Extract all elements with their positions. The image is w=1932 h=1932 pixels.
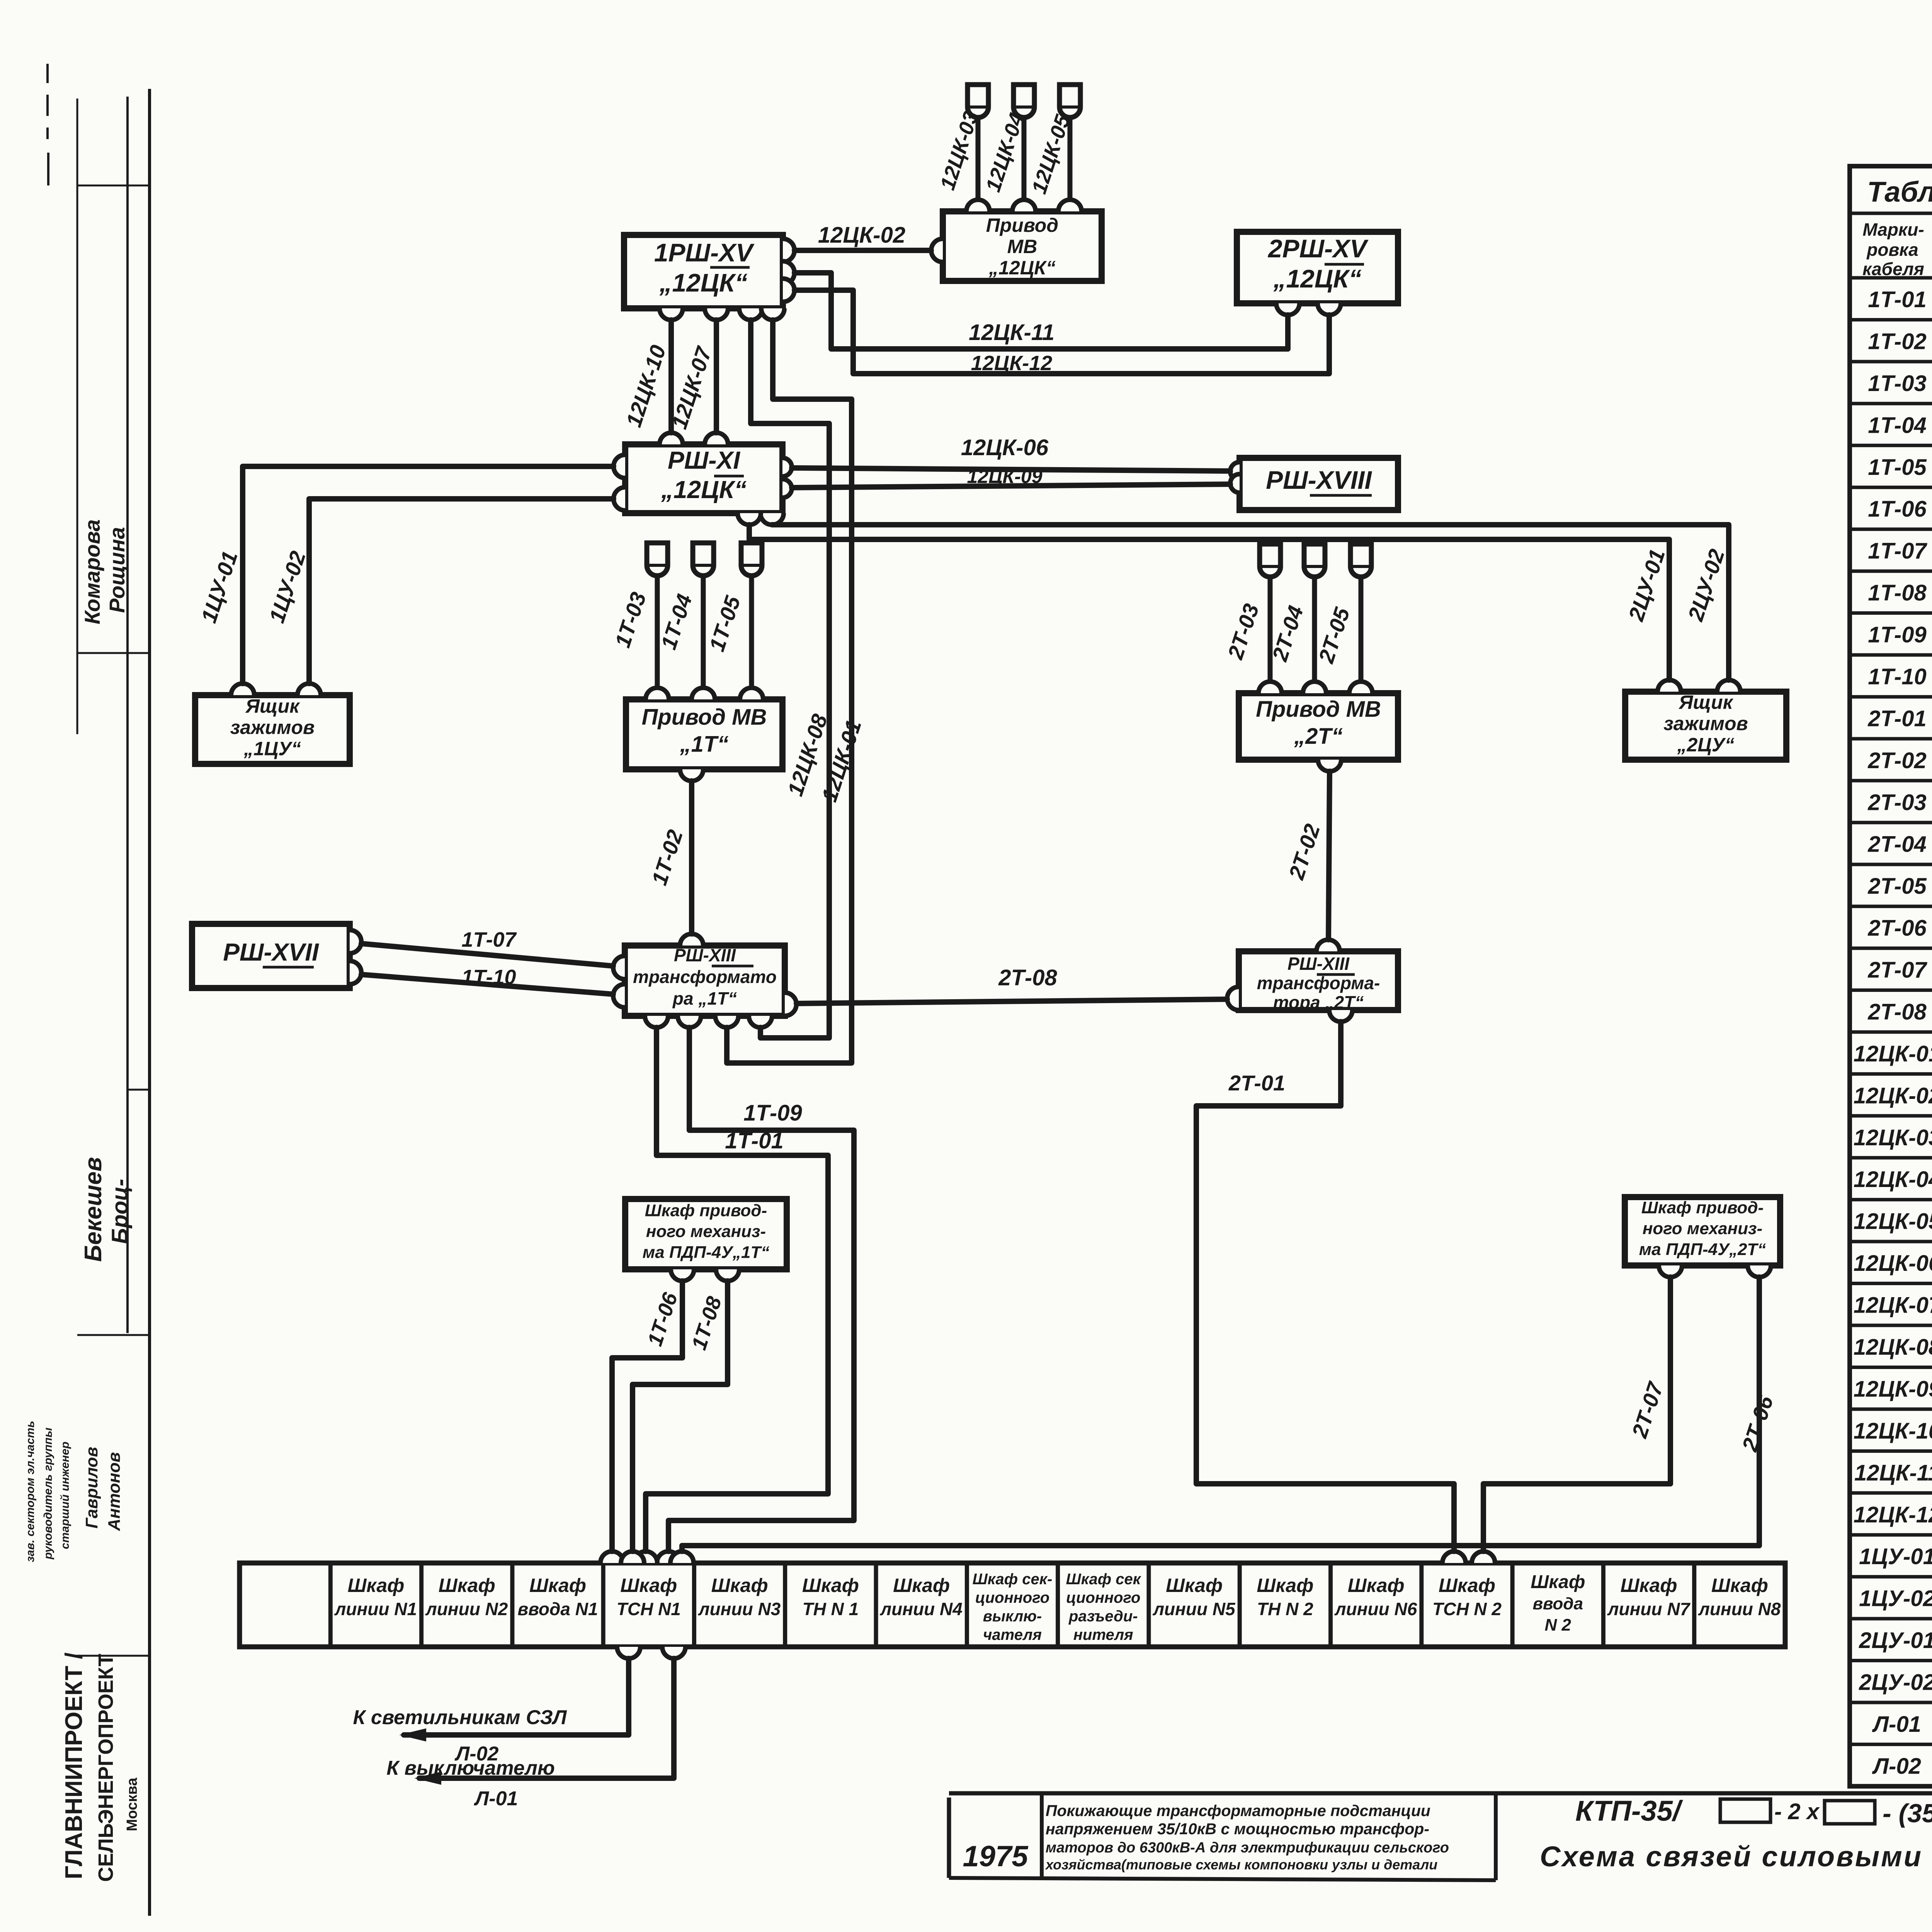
svg-text:Привод МВ: Привод МВ [1256, 697, 1381, 722]
title block type designation КТП-35 [1575, 1795, 1932, 1828]
svg-text:ТСН N1: ТСН N1 [617, 1599, 681, 1619]
terminal box Ящик зажимов „2ЦУ" [1625, 692, 1786, 760]
svg-text:линии N7: линии N7 [1607, 1599, 1691, 1619]
svg-text:хозяйства(типовые схемы компон: хозяйства(типовые схемы компоновки узлы … [1045, 1857, 1437, 1872]
cable terminations 1Т-03,04,05 [610, 543, 763, 699]
svg-text:„2ЦУ“: „2ЦУ“ [1677, 734, 1734, 756]
svg-text:старший инженер: старший инженер [59, 1442, 71, 1549]
svg-text:1Т-01: 1Т-01 [725, 1128, 784, 1153]
wire 1Т-08 [621, 1269, 739, 1563]
terminal box Ящик зажимов „1ЦУ" [195, 695, 350, 764]
cabinet РШ-XI „12ЦК" [625, 444, 782, 513]
sidebar signatures [80, 1157, 133, 1262]
wire 1Т-01 [634, 1016, 828, 1563]
svg-text:ГЛАВНИИПРОЕКТ /: ГЛАВНИИПРОЕКТ / [61, 1653, 87, 1879]
svg-text:1Т-10: 1Т-10 [461, 966, 516, 989]
svg-text:ного механиз-: ного механиз- [646, 1222, 766, 1241]
svg-text:12ЦК-12: 12ЦК-12 [1854, 1502, 1932, 1527]
svg-text:Шкаф: Шкаф [1166, 1575, 1223, 1596]
svg-text:тора „2Т“: тора „2Т“ [1273, 992, 1364, 1012]
cabinet РШ-XVII [192, 924, 350, 988]
svg-text:N 2: N 2 [1545, 1616, 1571, 1634]
svg-text:12ЦК-02: 12ЦК-02 [1854, 1083, 1932, 1108]
wire 1Т-09 [657, 1016, 854, 1563]
svg-text:„12ЦК“: „12ЦК“ [661, 476, 747, 503]
svg-text:12ЦК-09: 12ЦК-09 [1854, 1376, 1932, 1401]
svg-text:КТП-35/: КТП-35/ [1575, 1795, 1684, 1827]
svg-text:К светильникам СЗЛ: К светильникам СЗЛ [353, 1706, 567, 1729]
svg-text:2Т-04: 2Т-04 [1867, 832, 1927, 857]
svg-text:12ЦК-03: 12ЦК-03 [1854, 1125, 1932, 1150]
svg-text:ввода: ввода [1532, 1594, 1583, 1613]
wire 2Т-02 [1284, 760, 1341, 951]
svg-text:Шкаф привод-: Шкаф привод- [645, 1201, 767, 1220]
svg-text:ного механиз-: ного механиз- [1643, 1219, 1762, 1238]
wire Л-01 to switch [386, 1647, 685, 1810]
svg-text:Шкаф: Шкаф [439, 1575, 495, 1596]
drive mechanism cabinet ПДП-4У „2Т" [1625, 1197, 1780, 1265]
table title [1867, 176, 1932, 208]
svg-text:Шкаф: Шкаф [1531, 1572, 1585, 1592]
svg-text:РШ-ХIII: РШ-ХIII [1287, 954, 1350, 974]
svg-text:зав. сектором эл.часть: зав. сектором эл.часть [24, 1421, 37, 1562]
cabinet РШ-XIII трансформатора „1Т" [625, 945, 785, 1016]
svg-text:12ЦК-05: 12ЦК-05 [1854, 1209, 1932, 1234]
wire 12ЦК-10 [621, 308, 683, 444]
wire 12ЦК-11 [783, 261, 1299, 349]
svg-text:Шкаф: Шкаф [1348, 1575, 1405, 1596]
svg-text:12ЦК-07: 12ЦК-07 [1854, 1293, 1932, 1318]
wire Л-02 to luminaires [353, 1647, 640, 1765]
sidebar top dashes [48, 64, 48, 185]
svg-text:К выключателю: К выключателю [386, 1757, 555, 1779]
svg-text:2ЦУ-01: 2ЦУ-01 [1859, 1628, 1932, 1653]
wire 1Т-02 [647, 769, 703, 946]
switchgear cabinet row [240, 1563, 1785, 1647]
svg-text:Бекешев: Бекешев [80, 1157, 107, 1262]
svg-text:„1ЦУ“: „1ЦУ“ [243, 738, 301, 760]
svg-text:ционного: ционного [975, 1589, 1049, 1606]
svg-text:1Т-08: 1Т-08 [1868, 580, 1927, 605]
svg-text:Шкаф: Шкаф [620, 1575, 677, 1596]
svg-text:разъеди-: разъеди- [1068, 1608, 1138, 1625]
svg-text:ционного: ционного [1066, 1589, 1140, 1606]
svg-text:Шкаф: Шкаф [802, 1575, 859, 1596]
svg-text:„12ЦК“: „12ЦК“ [988, 257, 1056, 279]
title block year 1975 [963, 1840, 1029, 1873]
svg-text:- 2 х: - 2 х [1774, 1799, 1820, 1824]
wire 12ЦК-12 [783, 279, 1341, 375]
svg-text:ТН N 2: ТН N 2 [1257, 1599, 1313, 1619]
title block scheme name [1540, 1840, 1932, 1872]
drive cabinet Привод МВ „1Т" [626, 699, 782, 769]
sidebar institute stamp ГЛАВНИИПРОЕКТ [61, 1653, 140, 1882]
svg-text:1Т-01: 1Т-01 [1868, 287, 1927, 312]
svg-text:12ЦК-09: 12ЦК-09 [967, 466, 1042, 487]
cabinet РШ-XIII трансформатора „2Т" [1239, 951, 1398, 1012]
svg-text:12ЦК-04: 12ЦК-04 [1854, 1167, 1932, 1192]
svg-text:„1Т“: „1Т“ [680, 732, 729, 757]
wire 1ЦУ-01 [196, 455, 625, 695]
svg-text:трансформато: трансформато [633, 967, 777, 987]
sidebar stamp column lines [71, 89, 150, 1916]
svg-text:1Т-07: 1Т-07 [1868, 539, 1927, 564]
svg-text:1Т-02: 1Т-02 [1868, 329, 1927, 354]
svg-text:2Т-05: 2Т-05 [1867, 874, 1927, 899]
svg-text:1975: 1975 [963, 1840, 1029, 1873]
svg-text:2Т-07: 2Т-07 [1867, 957, 1927, 983]
svg-text:12ЦК-01: 12ЦК-01 [1854, 1041, 1932, 1066]
svg-text:1Т-03: 1Т-03 [1868, 371, 1927, 396]
svg-text:линии N2: линии N2 [425, 1599, 508, 1619]
svg-text:ра „1Т“: ра „1Т“ [672, 988, 737, 1009]
table header captions [1862, 219, 1932, 279]
svg-text:РШ-ХVII: РШ-ХVII [223, 938, 319, 966]
sidebar handwritten name Рощина [105, 527, 129, 613]
svg-text:ма ПДП-4У„1Т“: ма ПДП-4У„1Т“ [643, 1243, 770, 1262]
cabinet 1РШ-XV „12ЦК" [624, 235, 783, 308]
drive mechanism cabinet ПДП-4У „1Т" [625, 1199, 787, 1269]
wire 2Т-08 [785, 965, 1239, 1016]
drive cabinet Привод МВ „12ЦК" [943, 211, 1102, 281]
svg-text:Привод: Привод [986, 214, 1058, 236]
wire 2ЦУ-02 [760, 513, 1740, 692]
svg-text:2Т-06: 2Т-06 [1867, 916, 1927, 941]
svg-text:Шкаф: Шкаф [711, 1575, 768, 1596]
svg-text:Комарова: Комарова [80, 519, 104, 624]
svg-text:2Т-01: 2Т-01 [1228, 1071, 1285, 1095]
svg-text:ТН N 1: ТН N 1 [803, 1599, 859, 1619]
svg-text:Таблица связей, выполненных си: Таблица связей, выполненных силовыми каб… [1867, 176, 1932, 208]
wire 12ЦК-01 [715, 308, 866, 1063]
svg-text:Шкаф сек: Шкаф сек [1066, 1571, 1141, 1588]
svg-text:2Т-08: 2Т-08 [998, 965, 1057, 990]
svg-text:кабеля: кабеля [1862, 259, 1924, 279]
svg-text:Рощина: Рощина [105, 527, 129, 613]
svg-text:1ЦУ-01: 1ЦУ-01 [1859, 1544, 1932, 1569]
svg-text:линии N1: линии N1 [334, 1599, 417, 1619]
wire 1ЦУ-02 [264, 487, 625, 695]
svg-text:2РШ-ХV: 2РШ-ХV [1267, 234, 1369, 263]
svg-text:12ЦК-06: 12ЦК-06 [1854, 1251, 1932, 1276]
svg-text:„12ЦК“: „12ЦК“ [659, 268, 747, 297]
sidebar handwritten name Комарова [80, 519, 104, 624]
svg-text:Схема связей силовыми кабел: Схема связей силовыми кабелями [1540, 1840, 1932, 1872]
svg-text:руководитель группы: руководитель группы [42, 1427, 54, 1560]
wire 12ЦК-02 [783, 223, 943, 262]
svg-text:Привод МВ: Привод МВ [642, 705, 767, 730]
svg-text:зажимов: зажимов [1663, 713, 1748, 735]
svg-text:Шкаф: Шкаф [529, 1575, 586, 1596]
sidebar small role captions [24, 1421, 124, 1562]
svg-text:12ЦК-11: 12ЦК-11 [1854, 1460, 1932, 1485]
svg-text:ввода N1: ввода N1 [517, 1599, 598, 1619]
svg-text:РШ-ХI: РШ-ХI [668, 446, 740, 474]
svg-text:напряжением 35/10кВ с мощность: напряжением 35/10кВ с мощностью трансфор… [1046, 1820, 1429, 1838]
svg-text:2Т-03: 2Т-03 [1867, 790, 1927, 815]
svg-text:ма ПДП-4У„2Т“: ма ПДП-4У„2Т“ [1639, 1240, 1766, 1259]
svg-text:Шкаф: Шкаф [1711, 1575, 1768, 1596]
svg-text:Л-02: Л-02 [1872, 1753, 1921, 1779]
title block frame [949, 1793, 1932, 1916]
svg-text:Шкаф привод-: Шкаф привод- [1641, 1198, 1764, 1217]
wire 1Т-06 [600, 1269, 694, 1563]
cable terminations 12ЦК-03,04,05 [936, 85, 1082, 211]
wire 2Т-01 [1196, 1010, 1466, 1563]
svg-text:зажимов: зажимов [230, 717, 315, 738]
svg-text:1Т-10: 1Т-10 [1868, 664, 1927, 689]
svg-text:линии N6: линии N6 [1334, 1599, 1417, 1619]
wire 1Т-07 [350, 928, 625, 979]
svg-text:Шкаф: Шкаф [1439, 1575, 1495, 1596]
svg-text:чателя: чателя [983, 1626, 1042, 1643]
svg-text:„2Т“: „2Т“ [1294, 724, 1343, 749]
svg-text:МВ: МВ [1007, 236, 1037, 257]
svg-text:СЕЛЬЭНЕРГОПРОЕКТ: СЕЛЬЭНЕРГОПРОЕКТ [94, 1654, 117, 1882]
wire 12ЦК-08 [739, 308, 832, 1038]
svg-text:1Т-09: 1Т-09 [1868, 622, 1927, 648]
svg-text:линии N8: линии N8 [1698, 1599, 1781, 1619]
svg-text:1РШ-ХV: 1РШ-ХV [654, 238, 755, 267]
svg-text:РШ-ХVIII: РШ-ХVIII [1266, 466, 1372, 494]
wire 1Т-10 [350, 961, 625, 1007]
cabinet 2РШ-XV „12ЦК" [1237, 232, 1398, 303]
svg-text:Шкаф: Шкаф [1621, 1575, 1677, 1596]
svg-text:2ЦУ-02: 2ЦУ-02 [1859, 1670, 1932, 1695]
title block description text [1045, 1802, 1449, 1872]
wire 12ЦК-06 [782, 435, 1240, 481]
svg-text:„12ЦК“: „12ЦК“ [1273, 264, 1361, 293]
wire 2Т-06 [670, 1265, 1778, 1563]
svg-text:маторов до 6300кВ-А для электр: маторов до 6300кВ-А для электрификации с… [1046, 1840, 1449, 1856]
svg-text:12ЦК-11: 12ЦК-11 [969, 320, 1054, 345]
svg-text:- (35- 11а).: - (35- 11а). [1883, 1799, 1932, 1828]
svg-text:Покижающие трансформаторные по: Покижающие трансформаторные подстанции [1046, 1802, 1430, 1820]
svg-text:1Т-04: 1Т-04 [1868, 413, 1927, 438]
svg-text:Гаврилов: Гаврилов [82, 1447, 101, 1528]
svg-text:ТСН N 2: ТСН N 2 [1432, 1599, 1502, 1619]
table data rows [1854, 287, 1932, 1779]
svg-text:1Т-06: 1Т-06 [1868, 497, 1927, 522]
wire 12ЦК-09 [782, 466, 1240, 498]
svg-text:12ЦК-10: 12ЦК-10 [1854, 1418, 1932, 1444]
svg-text:нителя: нителя [1073, 1626, 1133, 1643]
cable terminations 2Т-03,04,05 [1223, 544, 1372, 693]
svg-text:12ЦК-08: 12ЦК-08 [1854, 1335, 1932, 1360]
svg-text:Антонов: Антонов [105, 1452, 124, 1531]
svg-text:линии N4: линии N4 [880, 1599, 963, 1619]
svg-text:1Т-07: 1Т-07 [461, 928, 517, 951]
svg-text:линии N5: линии N5 [1152, 1599, 1236, 1619]
svg-text:Шкаф: Шкаф [347, 1575, 404, 1596]
cable connection table grid [1850, 166, 1932, 1786]
wire 2Т-07 [1472, 1265, 1682, 1563]
svg-text:1ЦУ-02: 1ЦУ-02 [1859, 1586, 1932, 1611]
wire 2ЦУ-01 [738, 513, 1681, 692]
svg-text:ровка: ровка [1866, 240, 1918, 260]
svg-text:1Т-09: 1Т-09 [743, 1100, 802, 1126]
svg-text:Броц-: Броц- [107, 1179, 133, 1244]
svg-text:Л-01: Л-01 [1872, 1712, 1921, 1737]
svg-text:2Т-01: 2Т-01 [1867, 706, 1927, 731]
svg-text:Л-01: Л-01 [474, 1787, 518, 1810]
svg-text:1Т-05: 1Т-05 [1868, 455, 1927, 480]
svg-text:2Т-08: 2Т-08 [1867, 999, 1927, 1024]
svg-text:Шкаф: Шкаф [893, 1575, 950, 1596]
svg-text:РШ-ХIII: РШ-ХIII [674, 945, 736, 965]
cabinet РШ-XVIII [1240, 458, 1398, 510]
svg-text:12ЦК-12: 12ЦК-12 [971, 352, 1053, 375]
svg-text:12ЦК-06: 12ЦК-06 [961, 435, 1049, 460]
svg-text:Марки-: Марки- [1862, 219, 1924, 240]
svg-text:Шкаф сек-: Шкаф сек- [973, 1571, 1053, 1588]
svg-text:Ящик: Ящик [245, 696, 300, 717]
svg-text:Шкаф: Шкаф [1257, 1575, 1313, 1596]
svg-text:12ЦК-02: 12ЦК-02 [818, 223, 905, 248]
svg-text:трансформа-: трансформа- [1257, 973, 1380, 993]
svg-text:выклю-: выклю- [983, 1608, 1042, 1625]
drive cabinet Привод МВ „2Т" [1239, 693, 1398, 760]
svg-text:2Т-02: 2Т-02 [1867, 748, 1927, 773]
svg-text:линии N3: линии N3 [698, 1599, 781, 1619]
wire 12ЦК-07 [667, 308, 728, 444]
svg-text:Ящик: Ящик [1678, 692, 1734, 713]
svg-text:Москва: Москва [124, 1777, 140, 1831]
